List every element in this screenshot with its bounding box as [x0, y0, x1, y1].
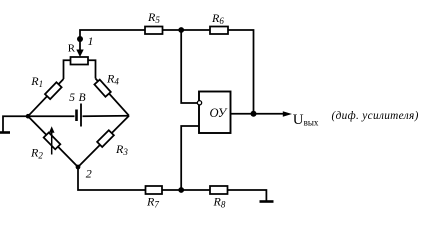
- svg-text:R: R: [68, 43, 76, 55]
- resistor R7: [146, 186, 163, 194]
- potentiometer R body: [71, 57, 89, 65]
- node 1 junction dot: [77, 36, 83, 42]
- wire pot left lead: [64, 60, 71, 79]
- resistor R3: [97, 130, 114, 147]
- node: bridge left vertex dot: [26, 114, 31, 119]
- svg-text:1: 1: [88, 34, 94, 48]
- op-amp U1 box: [199, 92, 231, 134]
- wire op-amp output: [231, 113, 286, 115]
- output arrowhead: [283, 111, 292, 117]
- resistor R6: [210, 27, 228, 35]
- resistor R1: [45, 82, 62, 99]
- resistor R2 (adjustable): [44, 132, 61, 149]
- wire non-inverting input from bottom junction: [181, 126, 199, 190]
- node: bottom rail junction dot: [178, 187, 184, 193]
- potentiometer R wiper arrow: [76, 50, 83, 58]
- svg-text:2: 2: [86, 166, 92, 180]
- battery 5V long plate: [80, 104, 82, 127]
- wire bridge left vertex to ground: [3, 116, 28, 132]
- wire bridge mid horizontal left (to battery): [28, 115, 75, 117]
- wire top: node1 to R5 to junction to R6 to right drop: [80, 30, 254, 114]
- ground (left): [0, 131, 10, 134]
- node: output junction dot: [251, 111, 257, 117]
- arrow of adjustable resistor R2: [49, 126, 55, 154]
- svg-text:5 В: 5 В: [69, 92, 86, 104]
- resistor R8: [210, 186, 228, 194]
- node 2 junction dot: [76, 165, 81, 170]
- wire bridge arm R1 diagonal: [28, 79, 64, 116]
- svg-text:ОУ: ОУ: [210, 106, 228, 120]
- wire node2 down and bottom rail to right ground: [78, 167, 266, 202]
- node: R5/R6 junction dot: [178, 27, 184, 33]
- ground (right): [260, 200, 274, 203]
- wire bridge arm R4 diagonal: [96, 79, 130, 116]
- wire bridge mid horizontal right (battery to right vertex): [83, 115, 130, 118]
- battery 5V short plate: [75, 110, 78, 122]
- svg-text:(диф. усилителя): (диф. усилителя): [332, 110, 419, 122]
- resistor R4: [94, 80, 110, 97]
- op-amp inverting input circle: [197, 101, 201, 105]
- wire pot right lead: [88, 60, 96, 78]
- wire bridge arm R2 diagonal: [28, 116, 78, 167]
- wire inverting input from top junction: [181, 30, 197, 103]
- resistor R5: [145, 27, 163, 35]
- wire bridge arm R3 diagonal: [78, 116, 129, 167]
